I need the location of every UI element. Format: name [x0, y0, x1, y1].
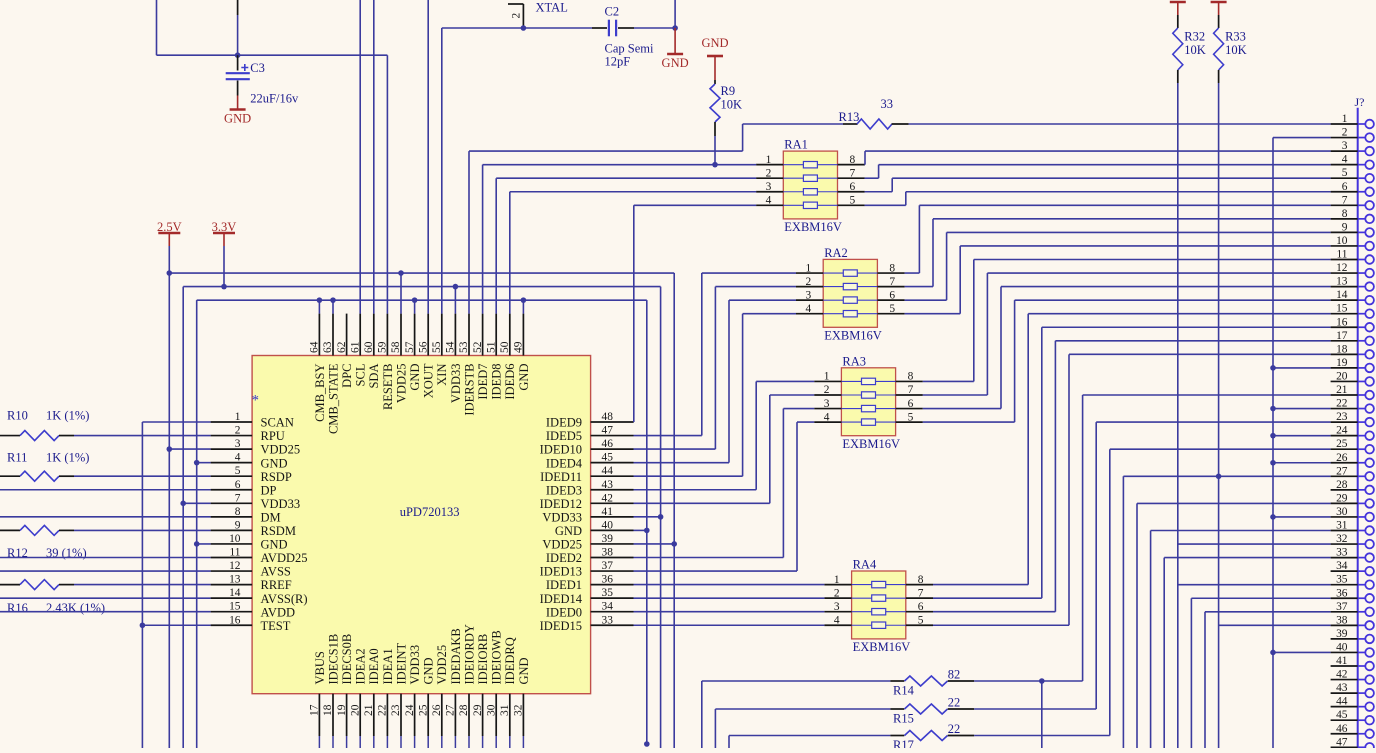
- wire RA2 pin3 jog: [729, 299, 796, 301]
- wire J38 row from R33 column: [1219, 624, 1331, 626]
- capacitor C3 bottom lead: [237, 81, 239, 96]
- IC pin 33 IDED15 (right): [591, 624, 634, 626]
- svg-text:CMB_BSY: CMB_BSY: [313, 364, 327, 422]
- svg-text:5: 5: [889, 303, 895, 315]
- wire IDED6 pin50 to RA1.3: [509, 192, 511, 314]
- connector J? pin 13: [1331, 286, 1358, 288]
- svg-text:52: 52: [472, 341, 484, 353]
- svg-text:11: 11: [1337, 249, 1348, 261]
- svg-text:VDD33: VDD33: [261, 497, 301, 511]
- svg-text:47: 47: [1336, 736, 1348, 748]
- svg-text:64: 64: [309, 341, 321, 353]
- wire R14 corner down-left: [701, 681, 703, 748]
- junction J19 on bus: [1270, 365, 1276, 371]
- svg-text:20: 20: [1336, 370, 1348, 382]
- RA1 internal resistor element 3: [783, 191, 837, 193]
- resistor R11 lead left: [0, 475, 20, 477]
- svg-text:EXBM16V: EXBM16V: [842, 437, 900, 451]
- svg-text:4: 4: [766, 195, 772, 207]
- RA3 pin 8 stub: [896, 380, 923, 382]
- connector J? pin 30: [1331, 516, 1358, 518]
- junction J24 on bus: [1270, 433, 1276, 439]
- junction 2.5V at pin 3: [167, 446, 173, 452]
- wire pin 26 down: [441, 736, 443, 748]
- svg-text:6: 6: [235, 479, 241, 491]
- connector J? pin 42: [1331, 679, 1358, 681]
- svg-text:R16: R16: [7, 601, 28, 615]
- svg-text:61: 61: [349, 341, 361, 353]
- svg-text:34: 34: [1336, 560, 1348, 572]
- junction XTAL node: [521, 25, 527, 31]
- svg-text:IDED3: IDED3: [546, 483, 582, 497]
- svg-text:IDERSTB: IDERSTB: [462, 364, 476, 416]
- wire pin 30 down: [495, 736, 497, 748]
- resistor R13 lead left: [843, 123, 858, 125]
- IC pin 18 IDECS1B (bottom): [332, 694, 334, 736]
- connector J? pin 44: [1331, 706, 1358, 708]
- wire RA2 pin2 jog: [715, 286, 796, 288]
- RA2 pin 6 stub: [877, 299, 904, 301]
- junction C2 right node: [672, 25, 678, 31]
- resistor R13 zigzag: [857, 119, 892, 129]
- wire R15 row left segment: [715, 708, 890, 710]
- wire RA3 pin4 jog: [797, 421, 814, 423]
- wire R11 to pin 5: [74, 475, 211, 477]
- wire RA3 pin5 to J14: [923, 421, 1015, 423]
- svg-text:10: 10: [1336, 235, 1348, 247]
- resistor R9 top lead: [714, 80, 716, 84]
- resistor R10 lead left: [0, 435, 20, 437]
- wire pin 28 down: [468, 736, 470, 748]
- svg-text:1: 1: [824, 371, 830, 383]
- C1 stub above C3 node: [237, 0, 239, 15]
- connector J? pin 14: [1331, 299, 1358, 301]
- svg-text:6: 6: [889, 289, 895, 301]
- svg-text:7: 7: [889, 276, 895, 288]
- wire 2.5V stem: [168, 246, 170, 273]
- wire pin 4 from GND: [197, 462, 211, 464]
- resistor R9 bottom lead: [714, 122, 716, 136]
- wire pin 11 to left edge: [0, 557, 211, 559]
- svg-text:12pF: 12pF: [605, 55, 631, 69]
- resistor R32 top lead: [1177, 15, 1179, 28]
- svg-text:60: 60: [363, 341, 375, 353]
- svg-text:2: 2: [834, 587, 840, 599]
- svg-text:R17: R17: [893, 738, 914, 748]
- wire GND pin40 to GND rail: [634, 529, 647, 531]
- svg-text:R13: R13: [839, 110, 860, 124]
- IC pin 34 IDED0 (right): [591, 611, 634, 613]
- junction 3.3V at pin 7: [180, 501, 186, 507]
- connector J? pin 32: [1331, 543, 1358, 545]
- connector J? pin 15: [1331, 313, 1358, 315]
- svg-text:40: 40: [1336, 641, 1348, 653]
- wire RA2 pin4 jog: [743, 313, 796, 315]
- svg-text:6: 6: [918, 601, 924, 613]
- wire R32 down: [1177, 83, 1179, 748]
- svg-text:RPU: RPU: [261, 429, 285, 443]
- wire R16 to pin 13: [74, 584, 211, 586]
- svg-text:RA3: RA3: [842, 354, 866, 368]
- IC pin 1 SCAN (left): [211, 421, 253, 423]
- resistor array RA2 EXBM16V body: [823, 259, 877, 327]
- IC pin 35 IDED14 (right): [591, 597, 634, 599]
- RA2 internal resistor element 3: [823, 299, 877, 301]
- IC pin 14 AVSS(R) (left): [211, 597, 253, 599]
- wire J19 from bus: [1273, 367, 1331, 369]
- svg-text:59: 59: [377, 341, 389, 353]
- junction GND at pin 4: [194, 460, 200, 466]
- connector J? pin 25: [1331, 448, 1358, 450]
- junction C3 node: [235, 52, 241, 58]
- wire SCAN/TEST vertical: [141, 422, 143, 748]
- svg-text:3: 3: [824, 398, 830, 410]
- wire pin 12 to left edge: [0, 570, 211, 572]
- IC pin 36 IDED1 (right): [591, 584, 634, 586]
- IC pin 16 TEST (left): [211, 624, 253, 626]
- junction rail2 pin 54: [453, 284, 459, 290]
- IC pin 51 IDED8 (top): [495, 314, 497, 356]
- IC pin 2 RPU (left): [211, 435, 253, 437]
- wire R14 row right segment: [974, 680, 1082, 682]
- IC pin 53 IDERSTB (top): [468, 314, 470, 356]
- resistor R10 lead right: [59, 435, 74, 437]
- resistor R15 lead right: [948, 708, 975, 710]
- svg-text:3: 3: [766, 181, 772, 193]
- RA3 internal resistor element 2: [841, 394, 895, 396]
- svg-text:DM: DM: [261, 510, 281, 524]
- resistor R17 lead right: [948, 735, 975, 737]
- svg-text:11: 11: [230, 547, 241, 559]
- RA4 pin 5 stub: [906, 624, 933, 626]
- wire RA2 pin1 jog: [702, 272, 796, 274]
- capacitor C2 right lead: [618, 27, 634, 29]
- wire 2.5V vertical left: [168, 273, 170, 748]
- svg-text:VDD33: VDD33: [542, 510, 582, 524]
- junction 3.3V at pin 41: [658, 514, 664, 520]
- svg-text:IDEA0: IDEA0: [367, 648, 381, 684]
- capacitor C3 plus sign: [241, 64, 248, 71]
- wire GND vertical right: [646, 300, 648, 744]
- resistor R33 bottom lead: [1218, 70, 1220, 83]
- connector J? pin 9: [1331, 231, 1358, 233]
- svg-text:2: 2: [824, 384, 830, 396]
- connector J? pin 23: [1331, 421, 1358, 423]
- svg-text:AVSS: AVSS: [261, 565, 291, 579]
- svg-text:39: 39: [1336, 628, 1348, 640]
- connector J? pin 7: [1331, 204, 1358, 206]
- resistor R14 lead left: [890, 680, 904, 682]
- IC pin 31 IDEDRQ (bottom): [509, 694, 511, 736]
- svg-text:23: 23: [390, 704, 402, 716]
- wire RA3 pin7 to J12: [923, 394, 988, 396]
- svg-text:SDA: SDA: [367, 364, 381, 389]
- wire RESETB vertical from C3 net: [386, 55, 388, 313]
- svg-text:13: 13: [1336, 276, 1348, 288]
- svg-text:XOUT: XOUT: [422, 363, 436, 398]
- IC pin 38 IDED2 (right): [591, 557, 634, 559]
- wire IDED0 pin34 to RA4.3: [634, 611, 825, 613]
- RA1 pin 8 stub: [838, 164, 865, 166]
- IC pin 25 GND (bottom): [427, 694, 429, 736]
- IC pin 30 IDEIOWB (bottom): [495, 694, 497, 736]
- svg-text:4: 4: [824, 411, 830, 423]
- svg-text:7: 7: [918, 587, 924, 599]
- connector J? pin 17: [1331, 340, 1358, 342]
- svg-text:25: 25: [417, 704, 429, 716]
- svg-text:18: 18: [1336, 343, 1348, 355]
- IC pin 8 DM (left): [211, 516, 253, 518]
- wire R13 to connector pin 1: [909, 123, 1331, 125]
- svg-text:32: 32: [513, 704, 525, 716]
- wire pin 18 down: [332, 736, 334, 748]
- svg-text:25: 25: [1336, 438, 1348, 450]
- RA1 pin 7 stub: [838, 177, 865, 179]
- svg-text:53: 53: [458, 341, 470, 353]
- IC pin 5 RSDP (left): [211, 475, 253, 477]
- svg-text:46: 46: [1336, 723, 1348, 735]
- wire J37 riser: [1204, 612, 1206, 748]
- junction J22 on bus: [1270, 406, 1276, 412]
- wire 3.3V vertical right: [660, 287, 662, 748]
- svg-text:R15: R15: [893, 712, 914, 726]
- svg-text:IDED12: IDED12: [540, 497, 582, 511]
- svg-text:38: 38: [602, 547, 614, 559]
- wire pin 3 from 2.5V: [169, 448, 210, 450]
- capacitor C2 left lead: [592, 27, 607, 29]
- svg-text:55: 55: [431, 341, 443, 353]
- svg-text:28: 28: [1336, 479, 1348, 491]
- svg-text:IDED13: IDED13: [540, 565, 582, 579]
- connector J? pin 1: [1331, 123, 1358, 125]
- wire IDED3 pin43 to RA3.1: [634, 489, 757, 491]
- connector J? pin 38: [1331, 624, 1358, 626]
- svg-text:35: 35: [602, 587, 614, 599]
- wire IDED7 pin52 to RA1.1: [482, 165, 484, 314]
- IC pin 41 VDD33 (right): [591, 516, 634, 518]
- svg-text:82: 82: [948, 668, 961, 682]
- resistor R17 lead left: [890, 735, 904, 737]
- svg-text:24: 24: [404, 704, 416, 716]
- wire R14 branch down: [1041, 681, 1043, 748]
- connector J? pin 46: [1331, 733, 1358, 735]
- svg-text:RSDP: RSDP: [261, 470, 292, 484]
- RA4 internal resistor element 2: [852, 597, 906, 599]
- wire RA1 pin6 to J5: [865, 191, 893, 193]
- wire IDED15 pin33 to RA4.4: [634, 624, 825, 626]
- junction J40 on bus: [1270, 650, 1276, 656]
- svg-text:6: 6: [850, 181, 856, 193]
- svg-text:18: 18: [322, 704, 334, 716]
- svg-text:57: 57: [404, 341, 416, 353]
- wire RA4 pin8 to J15: [933, 584, 1028, 586]
- RA3 pin 3 stub: [814, 408, 841, 410]
- wire IDED14 pin35 to RA4.2: [634, 597, 825, 599]
- svg-text:3: 3: [1342, 140, 1348, 152]
- RA4 internal resistor element 1: [852, 584, 906, 586]
- connector J? pin 35: [1331, 584, 1358, 586]
- capacitor C3 top lead: [237, 55, 239, 70]
- wire J31 riser: [1150, 531, 1152, 749]
- resistor R16 lead right: [59, 584, 74, 586]
- connector J? pin 29: [1331, 502, 1358, 504]
- wire pin 54 stub to rail: [454, 287, 456, 314]
- svg-text:GND: GND: [261, 456, 288, 470]
- svg-text:19: 19: [336, 704, 348, 716]
- svg-text:4: 4: [805, 303, 811, 315]
- RA4 pin 2 stub: [824, 597, 851, 599]
- connector J? pin 4: [1331, 164, 1358, 166]
- IC pin 19 IDECS0B (bottom): [346, 694, 348, 736]
- svg-text:IDED4: IDED4: [546, 456, 583, 470]
- IC pin 27 IDEDAKB (bottom): [454, 694, 456, 736]
- connector J? body line: [1357, 108, 1359, 748]
- junction R14 branch: [1039, 678, 1045, 684]
- connector J? pin 21: [1331, 394, 1358, 396]
- svg-text:24: 24: [1336, 425, 1348, 437]
- ground symbol at C2: [674, 28, 676, 54]
- svg-text:3: 3: [834, 601, 840, 613]
- RA3 internal resistor element 4: [841, 421, 895, 423]
- svg-text:38: 38: [1336, 614, 1348, 626]
- svg-text:Cap Semi: Cap Semi: [605, 42, 654, 56]
- IC pin 12 AVSS (left): [211, 570, 253, 572]
- svg-text:37: 37: [602, 560, 614, 572]
- svg-text:4: 4: [834, 614, 840, 626]
- svg-text:RSDM: RSDM: [261, 524, 296, 538]
- junction rail1 pin 58: [398, 270, 404, 276]
- svg-text:1: 1: [834, 574, 840, 586]
- svg-text:AVSS(R): AVSS(R): [261, 592, 308, 606]
- svg-text:GND: GND: [224, 112, 251, 126]
- svg-text:20: 20: [349, 704, 361, 716]
- IC pin 47 IDED5 (right): [591, 435, 634, 437]
- svg-text:1: 1: [235, 411, 241, 423]
- connector J? pin 10: [1331, 245, 1358, 247]
- junction 3.3V stem at rail: [221, 284, 227, 290]
- RA4 internal resistor element 4: [852, 624, 906, 626]
- resistor R14 zigzag: [905, 676, 948, 686]
- resistor R32 bottom lead: [1177, 70, 1179, 83]
- svg-text:1: 1: [1342, 113, 1348, 125]
- svg-text:8: 8: [908, 371, 914, 383]
- IC pin 52 IDED7 (top): [482, 314, 484, 356]
- resistor R16 lead left: [0, 584, 20, 586]
- IC pin 54 VDD33 (top): [454, 314, 456, 356]
- crystal XTAL body edge (cut at top): [508, 3, 523, 5]
- resistor R13 lead right: [892, 123, 909, 125]
- IC pin 13 RREF (left): [211, 584, 253, 586]
- RA2 internal resistor element 2: [823, 286, 877, 288]
- svg-text:IDEA1: IDEA1: [381, 648, 395, 684]
- svg-text:GND: GND: [662, 56, 689, 70]
- wire IDED13 pin37 to RA3.4: [634, 570, 798, 572]
- RA4 internal resistor element 3: [852, 611, 906, 613]
- wire RA4 pin6 to J17: [933, 611, 1055, 613]
- connector J? pin 18: [1331, 353, 1358, 355]
- RA2 pin 5 stub: [877, 313, 904, 315]
- RA4 pin 7 stub: [906, 597, 933, 599]
- svg-text:VBUS: VBUS: [313, 651, 327, 684]
- connector J? pin 40: [1331, 651, 1358, 653]
- wire R14 riser to J21: [1082, 395, 1084, 681]
- IC pin 22 IDEA1 (bottom): [386, 694, 388, 736]
- svg-text:IDED1: IDED1: [546, 578, 582, 592]
- connector J? pin 37: [1331, 611, 1358, 613]
- wire 3.3V vertical left: [182, 287, 184, 748]
- resistor R33 top lead: [1218, 15, 1220, 28]
- wire GND rail: [197, 299, 647, 301]
- power symbol above R32: [1170, 1, 1186, 4]
- wire R10 to pin 2: [74, 435, 211, 437]
- svg-text:GND: GND: [408, 364, 422, 391]
- connector J? pin 24: [1331, 435, 1358, 437]
- wire RA1 pin7 to J4: [865, 177, 879, 179]
- RA2 pin 4 stub: [796, 313, 823, 315]
- svg-text:36: 36: [602, 574, 614, 586]
- svg-text:XTAL: XTAL: [536, 1, 568, 15]
- svg-text:uPD720133: uPD720133: [400, 505, 460, 519]
- svg-text:7: 7: [908, 384, 914, 396]
- IC pin 26 VDD25 (bottom): [441, 694, 443, 736]
- wire pin 23 down: [400, 736, 402, 748]
- wire RA1 pin8 to J3: [864, 164, 866, 166]
- svg-text:GND: GND: [701, 36, 728, 50]
- wire J32 row from R32 column: [1178, 543, 1331, 545]
- svg-text:C3: C3: [250, 61, 265, 75]
- svg-text:6: 6: [908, 398, 914, 410]
- resistor R12 lead right: [59, 529, 74, 531]
- connector J? pin 2: [1331, 137, 1358, 139]
- resistor R12 zigzag: [20, 525, 59, 535]
- svg-text:48: 48: [602, 411, 614, 423]
- wire J26 from bus: [1273, 462, 1331, 464]
- svg-text:IDECS1B: IDECS1B: [326, 634, 340, 685]
- wire J33 riser: [1163, 558, 1165, 748]
- svg-text:VDD33: VDD33: [449, 364, 463, 404]
- wire RA3 pin1 jog: [756, 380, 814, 382]
- svg-text:30: 30: [1336, 506, 1348, 518]
- svg-text:27: 27: [445, 704, 457, 716]
- IC pin 3 VDD25 (left): [211, 448, 253, 450]
- wire IDED5 pin47 to RA2.1: [634, 435, 702, 437]
- svg-text:IDED0: IDED0: [546, 605, 582, 619]
- svg-text:56: 56: [417, 341, 429, 353]
- wire pin 19 down: [346, 736, 348, 748]
- IC pin 50 IDED6 (top): [509, 314, 511, 356]
- IC pin 63 CMB_STATE (top): [332, 314, 334, 356]
- IC pin 9 RSDM (left): [211, 529, 253, 531]
- wire VDD33 pin41 to 3.3V: [634, 516, 661, 518]
- wire R17 row right segment: [974, 735, 1110, 737]
- RA2 pin 3 stub: [796, 299, 823, 301]
- wire pin 57 stub to rail: [414, 300, 416, 313]
- connector J? pin 11: [1331, 259, 1358, 261]
- wire R17 row left segment: [729, 735, 890, 737]
- RA3 pin 7 stub: [896, 394, 923, 396]
- wire pin 21 down: [373, 736, 375, 748]
- wire pin 14 to left edge: [0, 597, 211, 599]
- connector J? pin 6: [1331, 191, 1358, 193]
- wire RA3 pin6 to J13: [923, 408, 1001, 410]
- svg-text:2: 2: [805, 276, 811, 288]
- RA3 pin 1 stub: [814, 380, 841, 382]
- IC pin 55 XIN (top): [441, 314, 443, 356]
- wire pin 20 down: [359, 736, 361, 748]
- svg-text:VDD25: VDD25: [542, 538, 582, 552]
- wire J22 from bus: [1273, 408, 1331, 410]
- IC pin 48 IDED9 (right): [591, 421, 634, 423]
